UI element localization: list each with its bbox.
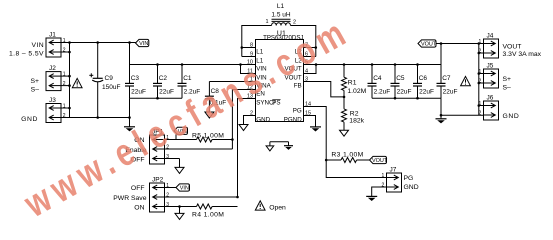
wire VOUT flag to J4 [436,43,479,45]
svg-text:2: 2 [293,20,296,26]
resistor R5 1.00M [192,132,224,142]
wire J7 pin2 [372,187,387,196]
junction J6 pin1 [478,104,481,107]
pin 8 L1 [250,43,264,56]
wire IC pin9 stub [242,56,256,58]
pin 7 L2 [295,43,308,56]
svg-text:2: 2 [63,47,66,53]
ground tie power side [284,142,293,150]
ground tie signal side [266,142,274,151]
wire IC pin7 stub [304,47,316,49]
svg-text:182k: 182k [349,117,364,124]
svg-text:3.3V 3A max: 3.3V 3A max [503,51,542,58]
wire J1 pin2 stub [61,51,70,53]
svg-text:OFF: OFF [131,185,145,192]
capacitor C5 22uF [391,65,412,99]
svg-text:1: 1 [63,38,66,44]
pin 11 VIN [247,69,266,82]
svg-text:2: 2 [63,113,66,119]
ground J7 pin2 [366,196,377,201]
pin 10 VIN [247,60,267,73]
wire input caps bottom bus [130,97,183,99]
pin 13 SYNC/PS [247,94,281,107]
wire VIN mid bus [130,64,256,66]
junction SYNC JP2 [236,196,239,199]
warning triangle note3 [255,201,265,210]
wire J3 pin1 stub [61,107,70,109]
svg-text:PWR Save: PWR Save [113,195,146,202]
junction J1 pin2 bus [68,51,71,54]
svg-text:1: 1 [265,19,268,25]
junction C2 bottom [156,97,159,100]
pin 3 FB [294,77,308,90]
svg-text:S+: S+ [503,76,512,83]
svg-text:FB: FB [294,82,302,89]
junction J2 pin1 bus [68,75,71,78]
wire VIN top bus [61,42,136,44]
svg-text:1: 1 [479,101,482,107]
svg-text:1: 1 [479,39,482,45]
junction J2 pin2 bus [68,84,71,87]
svg-text:VIN: VIN [139,41,148,47]
junction pin7 [315,46,318,49]
ground input rail [124,118,135,132]
svg-text:J4: J4 [487,33,494,40]
warning triangle note1 (sense) [72,78,82,87]
net flag VIN (JP1) [174,127,188,139]
junction pin11 [239,63,242,66]
wire IC pin11 drop [241,65,256,74]
wire J3 pin2 stub [61,117,70,119]
svg-text:S+: S+ [30,78,39,85]
wire VIN feed drop [129,43,131,65]
junction C6 bottom [416,97,419,100]
connector J2 [46,71,66,90]
pin 12 EN [247,85,265,98]
connector JP1 enable jumper [150,135,170,164]
svg-text:R3 1.00M: R3 1.00M [331,152,363,159]
ground JP1 pin3 [175,159,184,174]
svg-text:J7: J7 [390,167,397,174]
svg-text:C4: C4 [373,75,382,82]
svg-text:J1: J1 [49,32,56,39]
svg-text:J5: J5 [487,63,494,70]
wire output gnd drop [440,98,442,118]
resistor R1 1.02M [342,65,367,97]
capacitor C1 2.2uF [178,65,201,99]
svg-text:J6: J6 [487,95,494,102]
svg-text:C3: C3 [131,75,140,82]
svg-text:R1: R1 [348,80,357,87]
wire output connector bus vertical [478,44,480,116]
wire VOUT drop to rail [440,44,442,65]
svg-text:22uF: 22uF [419,89,434,96]
connector J5 [479,69,499,88]
svg-text:1: 1 [382,173,385,179]
svg-text:22uF: 22uF [131,89,146,96]
svg-text:2: 2 [479,110,482,116]
wire J6 pin1 stub [479,105,484,107]
junction C2 top [156,63,159,66]
pin 15 PGND [284,111,311,124]
wire IC pin4 up [304,65,317,74]
capacitor C2 22uF [153,65,174,99]
wire output caps bottom bus [372,97,441,99]
ground JP2 pin3 [175,207,184,220]
svg-text:VOUT: VOUT [372,158,388,164]
svg-text:R2: R2 [350,110,359,117]
net flag VOUT (R3) [370,156,388,164]
svg-text:S–: S– [31,86,40,93]
ground output rail [436,118,447,123]
svg-text:1: 1 [63,71,66,77]
connector J4 [479,39,499,58]
ground C8 [205,99,214,118]
capacitor C4 2.2uF [368,65,391,99]
junction R1 top rail [343,63,346,66]
svg-text:J2: J2 [49,65,56,72]
ground IC pin2 (signal) [239,124,248,131]
wire J4 pin1 stub [479,43,484,45]
wire J4 pin2 stub [479,52,484,54]
svg-text:L1: L1 [277,3,285,10]
svg-text:VIN: VIN [31,42,44,49]
junction FB node [343,96,346,99]
svg-text:22uF: 22uF [443,89,458,96]
resistor R4 1.00M [192,204,224,218]
junction VOUT flag drop [440,42,443,45]
IC U1 TPS63020DSJ body [256,40,304,122]
wire VINA pin1 [209,81,255,83]
junction EN R5 [231,138,234,141]
wire IC pin12 EN [232,90,255,150]
svg-text:2.2uF: 2.2uF [374,89,391,96]
wire L1 pin1 to IC L1 pins [242,26,272,57]
capacitor C9 150uF [89,43,120,118]
inductor L1 1.5uH [271,3,290,26]
svg-text:22uF: 22uF [397,89,412,96]
svg-text:C6: C6 [419,75,428,82]
wire J2 pin1 stub [61,75,70,77]
svg-text:JP2: JP2 [152,177,164,184]
pin 6 L2 [295,52,308,65]
svg-text:GND: GND [404,184,419,191]
svg-text:C2: C2 [159,75,168,82]
svg-text:Open: Open [269,205,286,212]
wire JP2 pin2 [165,196,238,198]
connector J1 [46,38,66,57]
capacitor C7 22uF [437,65,458,99]
net flag VOUT (top) [418,40,437,48]
wire FB pin3 [304,82,345,97]
svg-text:2: 2 [63,81,66,87]
wire IC pin15 PGND [304,116,316,127]
wire JP1 pin2 [165,148,232,150]
svg-text:1.5 uH: 1.5 uH [271,12,290,19]
wire GND rail left [70,117,130,119]
net flag VIN (JP2) [176,184,190,192]
net flag VIN (top) [136,39,149,47]
junction J5 pin2 [478,82,481,85]
svg-text:GND: GND [21,116,38,123]
junction C9 top [96,41,99,44]
pin 4 VOUT [284,69,308,82]
junction pin4 rail [315,63,318,66]
connector J6 [479,101,499,120]
svg-text:PS: PS [272,99,280,106]
wire L1 pin2 to IC L2 pins [291,26,316,57]
junction C9 bottom [96,116,99,119]
resistor R3 1.00M [331,152,363,163]
wire JP2 pin1 [165,187,176,189]
connector J3 [46,103,66,122]
svg-text:C9: C9 [105,75,114,82]
svg-text:8: 8 [250,43,253,49]
junction output gnd line [440,114,443,117]
wire IC pin6 stub [304,56,316,58]
capacitor C3 22uF [125,65,146,99]
svg-text:22uF: 22uF [159,89,174,96]
svg-text:VOUT: VOUT [421,42,437,48]
svg-text:GND: GND [256,116,270,123]
wire R3 lead [326,159,341,161]
svg-text:GND: GND [503,113,520,120]
junction VIN feed [128,41,131,44]
svg-text:C1: C1 [183,75,192,82]
ground IC pin15 PGND [310,126,321,132]
wire R3 to VOUT flag [357,159,370,161]
capacitor C6 22uF [413,65,434,99]
wire JP1 pin3 [165,158,180,160]
junction J1 pin1 bus [68,41,71,44]
svg-text:VOUT: VOUT [503,44,522,51]
svg-text:PG: PG [404,175,414,182]
svg-text:C7: C7 [442,75,451,82]
junction C4 top [371,63,374,66]
pin 2 GND [250,111,271,124]
svg-text:1: 1 [63,103,66,109]
wire R4 to SYNC [212,206,237,208]
junction C6 top [416,63,419,66]
svg-text:1.02M: 1.02M [347,88,366,95]
ground R2 [340,130,349,136]
capacitor C8 0.1uF [205,82,226,107]
wire IC pin8 stub [242,47,256,49]
wire JP1 pin1 [165,139,197,141]
svg-text:1.8 – 5.5V: 1.8 – 5.5V [9,51,44,58]
wire GND-PGND tie [270,141,289,143]
svg-text:J3: J3 [49,97,56,104]
junction C5 top [394,63,397,66]
svg-text:PG: PG [293,107,302,114]
wire caps gnd drop [129,98,131,117]
wire J5 pin2 stub [479,82,484,84]
junction J3 pin1 bus [68,107,71,110]
svg-text:2: 2 [479,78,482,84]
wire J2 pin2 stub [61,85,70,87]
wire R5 to EN [212,139,232,141]
connector J7 [382,173,402,192]
connector JP2 power-save jumper [150,183,170,212]
svg-text:ON: ON [134,205,144,212]
wire PG pin14 [304,107,387,178]
svg-text:150uF: 150uF [102,84,120,91]
junction C1 top [181,63,184,66]
svg-text:S–: S– [503,84,512,91]
svg-text:VIN: VIN [180,186,189,192]
junction J4 pin1 [478,42,481,45]
junction J5 pin1 [478,72,481,75]
junction PG R3 [325,159,328,162]
junction gnd rail [128,116,131,119]
pin 5 VOUT [284,60,308,73]
wire IC pin2 GND [244,116,256,125]
wire J6 pin2 gnd line [441,114,484,116]
wire VOUT rail [304,64,442,66]
svg-text:C5: C5 [396,75,405,82]
pin 1 VINA [250,77,272,90]
pin 14 PG [293,102,311,115]
svg-text:2: 2 [479,48,482,54]
junction pin8 [241,46,244,49]
watermark www.elecfans.com [17,10,357,226]
warning triangle note2 (sense) [461,76,471,85]
svg-text:1: 1 [479,69,482,75]
junction JP2 pin3 gnd tap [178,205,181,208]
svg-text:R4 1.00M: R4 1.00M [192,211,224,218]
wire J5 pin1 stub [479,73,484,75]
wire left connector bus vertical [69,43,71,118]
svg-text:PGND: PGND [284,116,302,123]
junction J4 pin2 [478,52,481,55]
wire JP2 pin3 [165,206,197,208]
pin 9 L1 [250,52,264,65]
resistor R2 182k [342,97,365,130]
junction C5 bottom [394,97,397,100]
wire IC pin13 SYNC/PS [238,99,256,198]
